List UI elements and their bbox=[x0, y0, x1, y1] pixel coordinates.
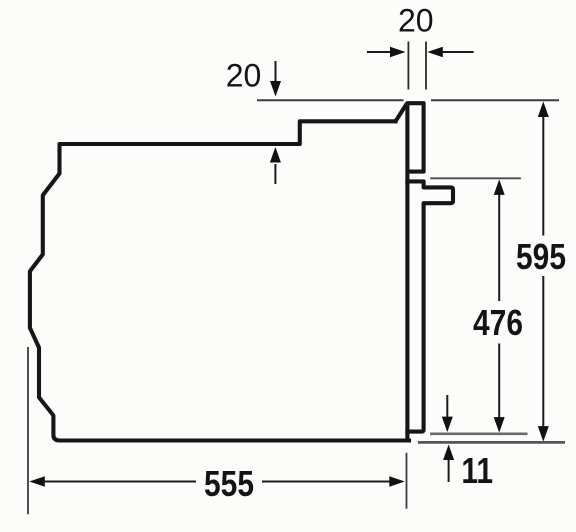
svg-text:20: 20 bbox=[398, 3, 434, 39]
svg-text:476: 476 bbox=[473, 303, 523, 343]
dimension 595: line with arrows bbox=[542, 116, 544, 428]
dimension 476: line with arrows bbox=[498, 194, 500, 419]
dimension 20 (top): left arrow bbox=[367, 51, 391, 53]
dimension 20 (left): up arrow bbox=[274, 164, 276, 184]
control panel fascia bbox=[407, 103, 423, 440]
fascia gap extension line (476 top) bbox=[430, 177, 521, 179]
svg-text:11: 11 bbox=[461, 451, 493, 491]
oven body outline (top, stepped top, left zigzag, bottom) bbox=[30, 121, 409, 440]
svg-text:20: 20 bbox=[226, 58, 262, 94]
svg-text:555: 555 bbox=[204, 464, 254, 504]
dimension 555: line with arrows bbox=[33, 481, 396, 483]
worktop top thin line bbox=[257, 99, 559, 101]
dimension 555: extension lines bbox=[28, 347, 407, 514]
svg-text:595: 595 bbox=[516, 237, 566, 277]
dimension 11: down arrow bbox=[446, 395, 448, 418]
door-bottom extension line (476 datum) bbox=[430, 432, 528, 435]
dimension 20 (left): down arrow bbox=[275, 61, 277, 81]
oven door front with handle bbox=[407, 181, 453, 431]
dimension 20 (top): extension lines bbox=[408, 42, 426, 90]
worktop diagonal into fascia bbox=[396, 104, 407, 121]
dimension 11: up arrow bbox=[448, 459, 450, 482]
niche floor extension line (595 datum) bbox=[418, 441, 565, 444]
dimension 20 (top): right arrow bbox=[442, 51, 474, 53]
